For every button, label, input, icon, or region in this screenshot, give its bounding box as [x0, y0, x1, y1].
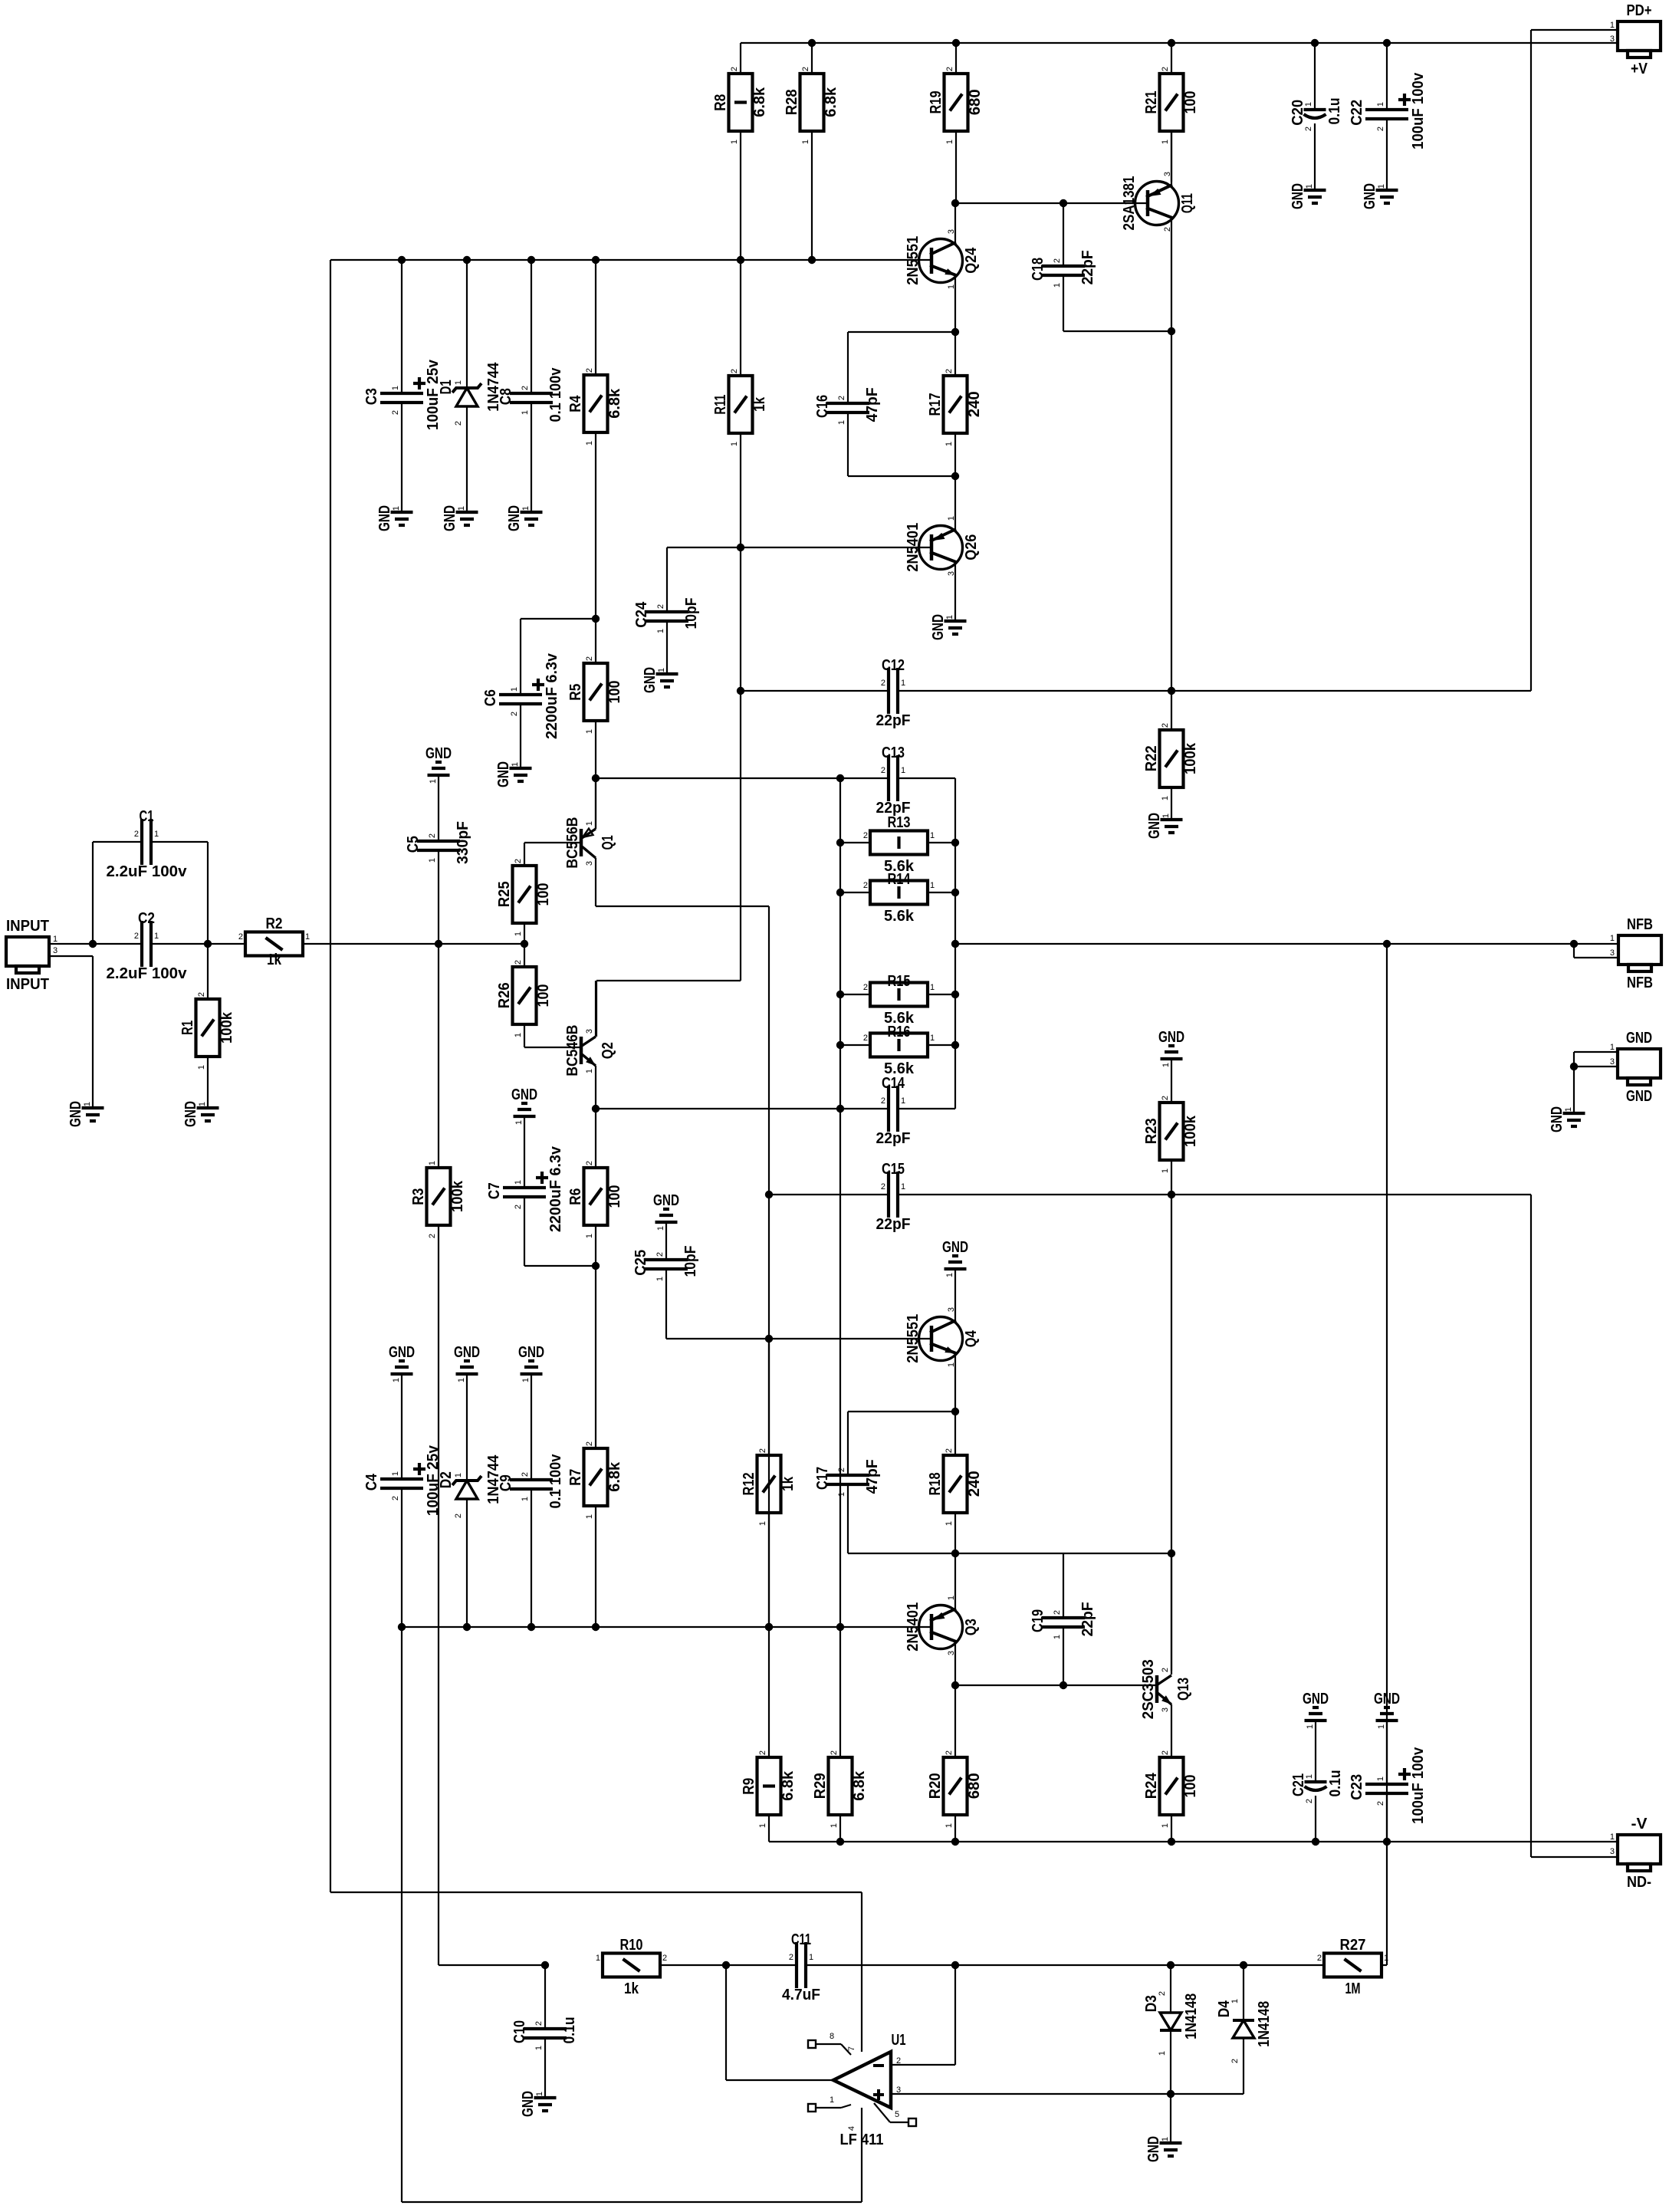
- svg-text:3: 3: [53, 946, 57, 955]
- wire R24 bottom: [1171, 1815, 1172, 1842]
- capacitor C13: [876, 744, 911, 817]
- svg-text:100: 100: [1182, 90, 1199, 113]
- node C17 top: [951, 1408, 959, 1415]
- svg-text:GND: GND: [506, 505, 523, 531]
- svg-text:1: 1: [901, 766, 905, 775]
- ground INPUT: [67, 1101, 104, 1127]
- svg-text:NFB: NFB: [1627, 975, 1653, 991]
- svg-text:1: 1: [1053, 1635, 1062, 1639]
- svg-text:5.6k: 5.6k: [884, 908, 915, 925]
- capacitor C1: [107, 808, 188, 880]
- wire R29 top: [839, 1627, 841, 1757]
- capacitor C15: [876, 1161, 911, 1233]
- svg-text:2: 2: [837, 396, 846, 400]
- svg-text:R22: R22: [1143, 745, 1160, 771]
- capacitor C18: [1030, 250, 1096, 288]
- node Q3-R20 wire: [951, 1681, 959, 1689]
- svg-text:3: 3: [585, 1029, 594, 1034]
- svg-text:1: 1: [585, 729, 594, 734]
- svg-text:1: 1: [947, 516, 956, 521]
- wire C4 bottom: [401, 1488, 402, 1627]
- svg-text:GND: GND: [389, 1344, 415, 1361]
- svg-text:GND: GND: [1145, 2136, 1162, 2162]
- svg-text:GND: GND: [182, 1101, 199, 1127]
- resistor R8: [712, 67, 768, 144]
- wire left feedback column: [330, 260, 331, 1892]
- svg-text:R19: R19: [928, 90, 945, 113]
- node bottom rail join: [836, 1623, 844, 1631]
- transistor Q3: [919, 1606, 963, 1649]
- wire R28 bottom: [811, 131, 813, 260]
- resistor R23: [1143, 1096, 1199, 1173]
- wire C3-GND: [401, 403, 402, 512]
- svg-text:Q3: Q3: [963, 1619, 980, 1635]
- svg-text:1: 1: [1161, 2137, 1170, 2141]
- wire C4 top: [401, 1374, 402, 1479]
- svg-text:100k: 100k: [1182, 1115, 1199, 1147]
- svg-text:1: 1: [534, 2046, 544, 2050]
- wire C24-GND: [666, 621, 668, 674]
- svg-text:1: 1: [1306, 1724, 1315, 1729]
- svg-text:ND-: ND-: [1627, 1874, 1651, 1891]
- svg-text:GND: GND: [520, 2091, 537, 2117]
- svg-text:1: 1: [930, 983, 935, 992]
- svg-text:1: 1: [154, 932, 159, 941]
- svg-text:1: 1: [830, 1823, 839, 1828]
- svg-text:6.8k: 6.8k: [751, 87, 768, 117]
- svg-text:2: 2: [585, 656, 594, 661]
- resistor R28: [784, 67, 839, 144]
- node NFB drop: [1383, 940, 1391, 948]
- wire R3 down: [438, 1225, 439, 1965]
- svg-text:2: 2: [134, 830, 139, 839]
- svg-text:10pF: 10pF: [682, 1246, 699, 1277]
- node R13 right: [951, 839, 959, 846]
- wire C22 top: [1386, 43, 1388, 110]
- svg-text:R4: R4: [567, 395, 584, 412]
- svg-text:2: 2: [585, 368, 594, 373]
- wire R3 top: [438, 944, 439, 1168]
- wire R6 bottom: [595, 1225, 596, 1448]
- node R7 bottom rail: [592, 1623, 600, 1631]
- wire Q24 collector: [954, 203, 956, 245]
- svg-text:3: 3: [947, 1307, 956, 1312]
- svg-text:C17: C17: [814, 1467, 831, 1490]
- wire R25 bottom: [524, 923, 525, 944]
- svg-text:C1: C1: [140, 808, 154, 825]
- svg-text:NFB: NFB: [1627, 916, 1653, 933]
- capacitor C11: [782, 1931, 820, 2003]
- ground C25: [653, 1192, 679, 1231]
- svg-text:C5: C5: [405, 836, 422, 853]
- svg-text:1: 1: [511, 762, 520, 767]
- svg-text:1: 1: [197, 1065, 206, 1070]
- resistor R21: [1143, 67, 1199, 144]
- resistor R29: [812, 1750, 868, 1828]
- svg-text:C22: C22: [1349, 100, 1365, 126]
- svg-text:C11: C11: [791, 1931, 811, 1948]
- wire R11-down: [740, 433, 741, 981]
- svg-text:R29: R29: [812, 1773, 829, 1799]
- svg-text:1: 1: [837, 1492, 846, 1497]
- svg-text:1: 1: [391, 1471, 400, 1476]
- wire Q4 emitter: [954, 1354, 956, 1455]
- wire input to C2: [93, 943, 142, 945]
- wire GND-C5: [438, 775, 439, 841]
- svg-text:1: 1: [930, 1034, 935, 1043]
- svg-text:Q2: Q2: [600, 1042, 616, 1059]
- svg-text:2N5401: 2N5401: [905, 1602, 922, 1652]
- svg-text:C15: C15: [882, 1161, 905, 1178]
- resistor R9: [741, 1750, 797, 1828]
- wire C19 bottom: [1063, 1627, 1064, 1685]
- node C8 rail: [527, 256, 535, 264]
- svg-text:C7: C7: [486, 1182, 503, 1199]
- svg-text:R16: R16: [888, 1024, 911, 1040]
- svg-text:R24: R24: [1143, 1773, 1160, 1800]
- wire opamp pin5 stub: [874, 2103, 916, 2126]
- svg-text:D2: D2: [438, 1471, 455, 1488]
- svg-text:1N4148: 1N4148: [1256, 2001, 1273, 2047]
- node R12 bottom rail: [765, 1623, 773, 1631]
- wire C20 top: [1314, 43, 1316, 110]
- node C18 tap: [1060, 199, 1067, 207]
- node R15 left: [836, 991, 844, 998]
- svg-text:Q24: Q24: [963, 247, 980, 274]
- wire R16 left lead: [840, 1044, 870, 1046]
- svg-text:1: 1: [585, 441, 594, 445]
- wire lower base rail: [402, 1626, 933, 1628]
- svg-text:2: 2: [585, 1161, 594, 1165]
- node Q11-R22 on C12 wire: [1168, 687, 1175, 695]
- svg-text:2: 2: [1161, 1750, 1170, 1755]
- node R23 bottom: [1168, 1191, 1175, 1198]
- svg-text:2: 2: [1161, 1096, 1170, 1100]
- svg-text:1: 1: [154, 830, 159, 839]
- svg-text:1: 1: [945, 1521, 954, 1526]
- wire Q11 emitter top: [1171, 131, 1172, 188]
- wire R17-Q26: [954, 433, 956, 529]
- svg-text:1: 1: [930, 831, 935, 840]
- svg-text:3: 3: [1161, 1707, 1170, 1712]
- svg-text:C6: C6: [482, 689, 499, 706]
- svg-text:2: 2: [197, 992, 206, 997]
- wire R8 top: [740, 43, 741, 74]
- svg-text:GND: GND: [1549, 1106, 1566, 1132]
- svg-text:2: 2: [945, 1448, 954, 1453]
- wire C23 bottom: [1386, 1793, 1388, 1842]
- svg-text:2: 2: [428, 1234, 437, 1238]
- svg-text:1k: 1k: [780, 1476, 797, 1491]
- wire C17 loop bottom: [847, 1484, 849, 1553]
- ground C5: [425, 745, 452, 784]
- svg-text:1: 1: [1161, 1168, 1170, 1173]
- svg-text:GND: GND: [653, 1192, 679, 1209]
- svg-text:2: 2: [391, 1496, 400, 1500]
- resistor R19: [928, 67, 984, 144]
- capacitor C12: [876, 657, 911, 729]
- wire C25 bottom: [665, 1269, 667, 1339]
- svg-text:INPUT: INPUT: [6, 976, 49, 993]
- transistor Q2: [581, 1037, 596, 1066]
- svg-text:0.1u: 0.1u: [1327, 1770, 1344, 1796]
- wire C12 net: [741, 690, 889, 692]
- svg-text:2: 2: [510, 712, 519, 716]
- ground Q4: [942, 1239, 968, 1277]
- svg-text:R27: R27: [1340, 1937, 1366, 1954]
- svg-text:+V: +V: [1631, 61, 1648, 77]
- svg-text:1: 1: [457, 506, 466, 511]
- svg-text:1: 1: [510, 687, 519, 692]
- svg-text:C19: C19: [1030, 1609, 1046, 1632]
- svg-text:1: 1: [656, 629, 665, 633]
- svg-text:100: 100: [606, 680, 623, 703]
- wire PD+ pin1: [1531, 29, 1618, 31]
- node rail-C20: [1311, 39, 1319, 47]
- svg-text:1: 1: [1610, 1832, 1615, 1842]
- svg-text:1: 1: [457, 1378, 466, 1382]
- svg-text:1: 1: [305, 932, 310, 942]
- svg-text:R8: R8: [712, 94, 729, 111]
- svg-text:GND: GND: [1626, 1088, 1652, 1105]
- wire GND-R23: [1171, 1059, 1172, 1103]
- svg-text:2: 2: [454, 421, 463, 426]
- wire Q13 base net: [955, 1684, 1157, 1686]
- svg-text:GND: GND: [642, 667, 659, 693]
- wire C6 top: [520, 619, 521, 695]
- wire C4 column down: [401, 1627, 402, 2202]
- svg-text:1: 1: [535, 2092, 544, 2096]
- wire C24 top: [666, 547, 668, 612]
- svg-text:22pF: 22pF: [876, 712, 911, 729]
- node Q4 base tap: [765, 1335, 773, 1343]
- svg-text:100k: 100k: [1182, 742, 1199, 774]
- wire R19 top: [955, 43, 957, 74]
- svg-text:1N4148: 1N4148: [1183, 1993, 1200, 2039]
- wire C18 drop: [1063, 203, 1064, 266]
- resistor R5: [567, 656, 623, 734]
- resistor R12: [741, 1448, 797, 1526]
- svg-text:GND: GND: [1362, 183, 1378, 209]
- svg-text:100uF 100v: 100uF 100v: [1410, 1747, 1427, 1824]
- svg-text:Q11: Q11: [1179, 193, 1196, 213]
- resistor R20: [927, 1750, 983, 1828]
- node C1 left: [89, 940, 97, 948]
- svg-text:GND: GND: [1626, 1030, 1652, 1047]
- wire C9 top: [531, 1374, 532, 1480]
- svg-text:100k: 100k: [449, 1180, 466, 1212]
- wire NFB net: [955, 943, 1618, 945]
- wire C18 bottom: [1063, 275, 1064, 331]
- svg-text:2: 2: [428, 833, 437, 838]
- wire R29 bottom: [839, 1815, 841, 1842]
- resistor R24: [1143, 1750, 1199, 1828]
- ground C20: [1290, 183, 1326, 209]
- svg-text:C14: C14: [882, 1075, 905, 1092]
- wire R1-GND: [207, 1057, 209, 1108]
- resistor R27: [1317, 1937, 1388, 1997]
- svg-text:C12: C12: [882, 657, 905, 674]
- wire D2 bottom: [466, 1499, 468, 1627]
- capacitor C10: [511, 2016, 578, 2050]
- wire C16 loop bottom: [847, 412, 849, 476]
- svg-text:GND: GND: [930, 614, 947, 640]
- svg-text:2: 2: [514, 960, 523, 965]
- wire R27 right: [1382, 1964, 1387, 1966]
- svg-text:2: 2: [1317, 1954, 1322, 1963]
- svg-text:1: 1: [596, 1954, 600, 1963]
- svg-text:Q26: Q26: [963, 534, 980, 560]
- svg-text:GND: GND: [67, 1101, 84, 1127]
- svg-text:1: 1: [1304, 102, 1313, 107]
- svg-text:1: 1: [514, 932, 523, 936]
- svg-text:GND: GND: [942, 1239, 968, 1256]
- wire R12 top: [768, 1339, 770, 1455]
- node Q24-C18: [951, 199, 959, 207]
- svg-text:1: 1: [1161, 140, 1170, 144]
- svg-text:1: 1: [758, 1823, 767, 1828]
- capacitor C2: [107, 910, 188, 982]
- svg-text:1: 1: [657, 668, 666, 672]
- node C5/R3: [435, 940, 442, 948]
- node R29 -V: [836, 1838, 844, 1846]
- svg-text:D3: D3: [1143, 1995, 1160, 2012]
- wire R23 down to Q13: [1171, 1195, 1172, 1671]
- svg-text:2.2uF 100v: 2.2uF 100v: [107, 965, 188, 982]
- node C16 top: [951, 328, 959, 336]
- ground GND-conn: [1549, 1106, 1585, 1132]
- node R14 right: [951, 889, 959, 896]
- svg-text:2: 2: [238, 932, 243, 942]
- wire C20-GND: [1314, 123, 1316, 190]
- wire C8 top: [531, 260, 532, 393]
- wire R19-Q24: [955, 131, 957, 203]
- svg-text:1: 1: [429, 779, 438, 784]
- svg-text:2: 2: [656, 604, 665, 609]
- svg-text:2N5551: 2N5551: [905, 236, 922, 285]
- transistor Q1: [581, 829, 596, 858]
- transistor Q13: [1157, 1675, 1171, 1704]
- node D3-D4 wire: [1167, 2090, 1175, 2098]
- svg-text:2: 2: [881, 1096, 885, 1106]
- svg-text:PD+: PD+: [1627, 2, 1652, 19]
- node C21 -V: [1312, 1838, 1319, 1846]
- svg-text:2: 2: [454, 1514, 463, 1518]
- svg-text:1: 1: [901, 679, 905, 688]
- node R18-Q3: [951, 1550, 959, 1557]
- svg-text:1: 1: [83, 1102, 92, 1106]
- resistor R14: [863, 871, 935, 925]
- svg-text:2.2uF 100v: 2.2uF 100v: [107, 863, 188, 880]
- svg-text:Q1: Q1: [600, 835, 616, 850]
- svg-text:2: 2: [521, 1472, 530, 1477]
- svg-text:2: 2: [863, 881, 868, 890]
- svg-text:R15: R15: [888, 973, 911, 990]
- svg-text:2: 2: [1230, 2059, 1240, 2063]
- wire C7 bottom: [524, 1197, 525, 1266]
- wire R22-GND: [1171, 787, 1172, 820]
- svg-text:1: 1: [514, 1033, 523, 1037]
- svg-text:4: 4: [847, 2126, 856, 2131]
- svg-text:6.8k: 6.8k: [606, 388, 623, 419]
- wire op-amp V+ feed: [330, 1892, 862, 1893]
- svg-text:GND: GND: [518, 1344, 544, 1361]
- svg-text:2: 2: [730, 369, 739, 373]
- svg-text:22pF: 22pF: [876, 1216, 911, 1233]
- wire Q3 emitter top: [954, 1553, 956, 1612]
- transistor Q4: [919, 1317, 963, 1361]
- svg-text:C18: C18: [1030, 258, 1046, 281]
- resistor R17: [927, 369, 983, 446]
- svg-text:C13: C13: [882, 744, 905, 761]
- capacitor C19: [1030, 1602, 1096, 1639]
- svg-text:1: 1: [585, 1069, 594, 1073]
- connector NFB: [1618, 916, 1661, 991]
- wire R25 top: [524, 843, 525, 866]
- capacitor C23: [1349, 1747, 1427, 1824]
- svg-text:1: 1: [53, 935, 57, 944]
- zener D2: [438, 1374, 502, 1518]
- svg-text:1: 1: [514, 1120, 524, 1125]
- wire R15 left lead: [840, 994, 870, 995]
- node R20 -V: [951, 1838, 959, 1846]
- svg-text:2: 2: [863, 831, 868, 840]
- wire R7 bottom: [595, 1506, 596, 1627]
- svg-text:1M: 1M: [1345, 1980, 1361, 1997]
- capacitor C6: [482, 652, 560, 739]
- ground C8: [506, 505, 543, 531]
- wire R16 right lead: [928, 1044, 955, 1046]
- svg-text:1: 1: [930, 881, 935, 890]
- svg-text:1: 1: [198, 1102, 207, 1106]
- wire right chain x1246: [954, 843, 956, 1109]
- capacitor C8: [498, 367, 564, 422]
- wire C10-GND: [544, 2038, 546, 2098]
- resistor R7: [567, 1441, 623, 1519]
- node rail-R28: [808, 39, 816, 47]
- wire -V rail: [769, 1841, 1618, 1842]
- svg-text:47pF: 47pF: [864, 1459, 881, 1494]
- svg-text:C8: C8: [498, 388, 514, 405]
- svg-text:Q13: Q13: [1175, 1678, 1192, 1701]
- svg-text:1k: 1k: [267, 952, 282, 968]
- svg-text:2: 2: [881, 1182, 885, 1191]
- wire Q13 emitter: [1171, 1704, 1172, 1757]
- svg-text:2: 2: [881, 766, 885, 775]
- svg-text:100k: 100k: [218, 1011, 235, 1044]
- svg-text:2: 2: [1161, 723, 1170, 728]
- node R14 left: [836, 889, 844, 896]
- node C18-Q11: [1168, 327, 1175, 335]
- svg-text:6.8k: 6.8k: [606, 1461, 623, 1492]
- node C10 top: [541, 1961, 549, 1969]
- resistor R11: [712, 369, 768, 446]
- wire R4-R5: [595, 432, 596, 663]
- svg-text:3: 3: [1610, 1847, 1615, 1856]
- svg-text:1: 1: [1377, 1724, 1386, 1729]
- node opamp pin2 riser: [951, 1961, 959, 1969]
- svg-text:R2: R2: [266, 915, 283, 932]
- node R8 base rail: [737, 256, 744, 264]
- svg-text:1: 1: [656, 1226, 665, 1231]
- wire C13 net: [596, 777, 889, 779]
- svg-text:1: 1: [454, 1473, 463, 1477]
- svg-text:Q4: Q4: [963, 1330, 980, 1347]
- wire opamp pin8 stub: [808, 2032, 851, 2055]
- ground R1: [182, 1101, 219, 1127]
- svg-text:680: 680: [966, 1773, 983, 1799]
- svg-text:R7: R7: [567, 1469, 584, 1486]
